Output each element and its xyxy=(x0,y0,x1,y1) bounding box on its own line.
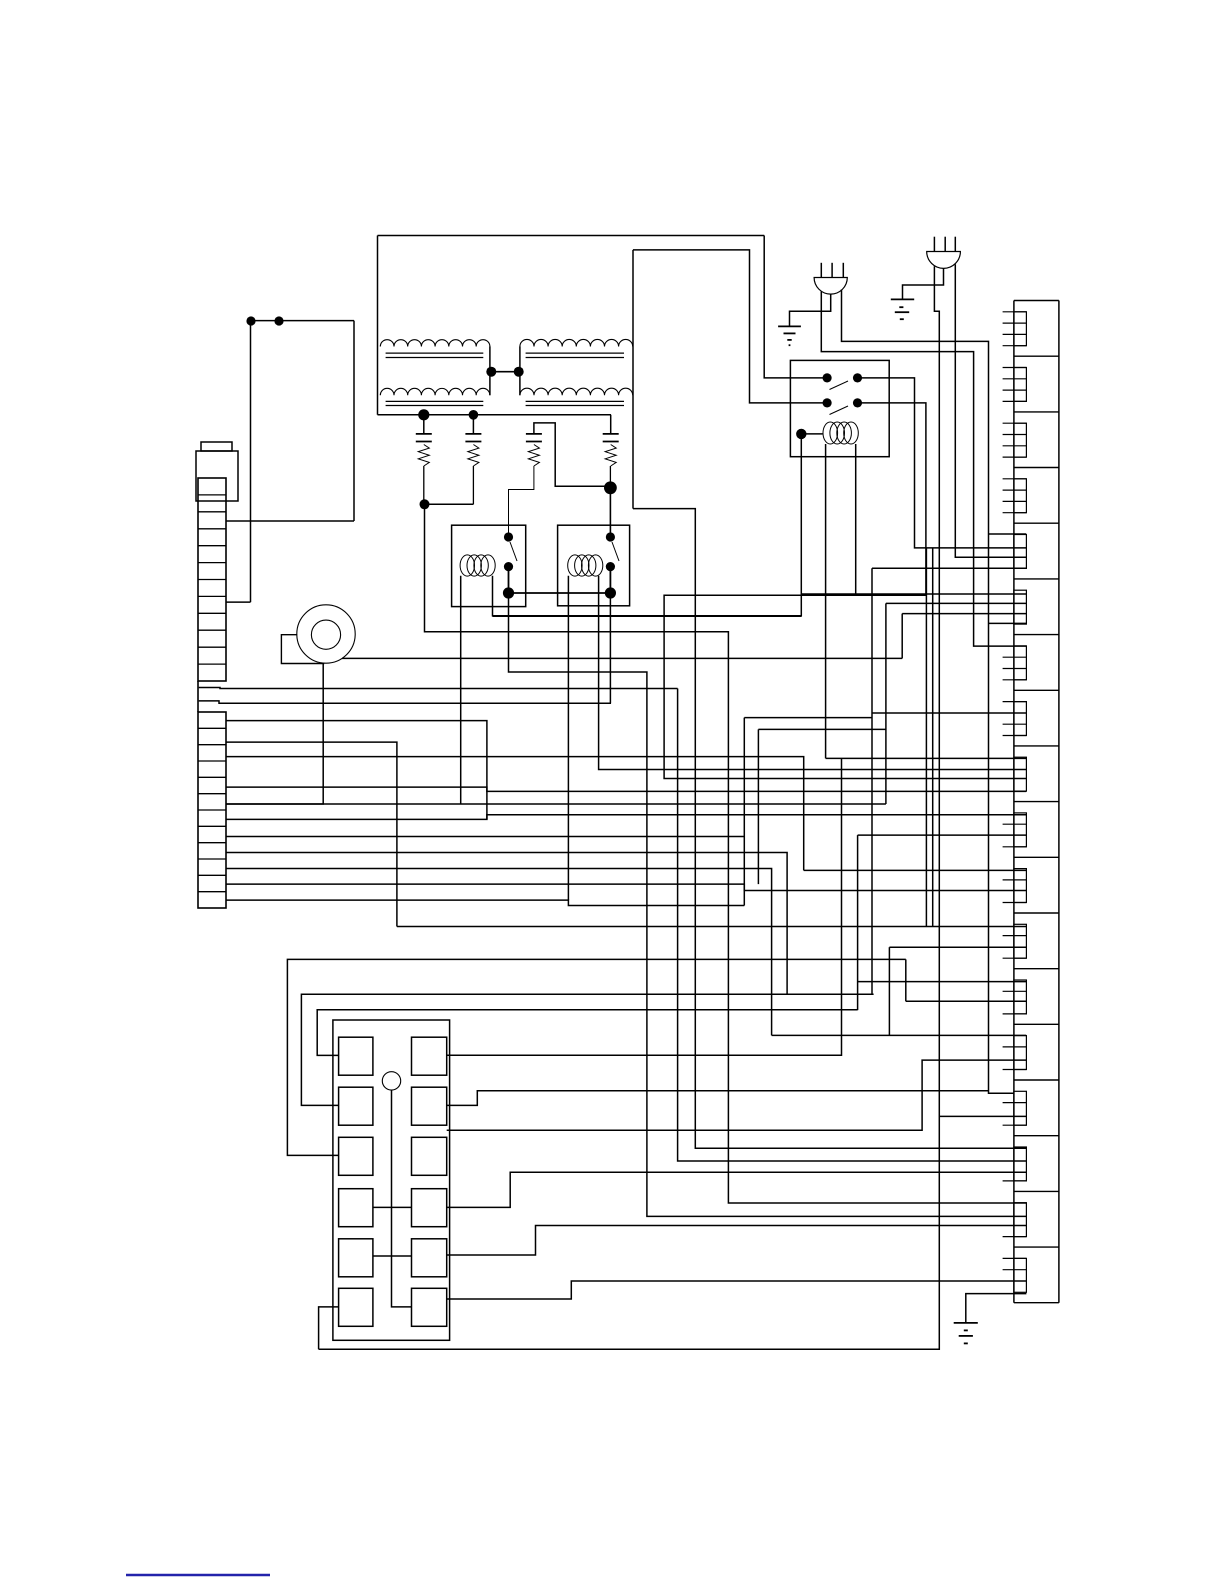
wire P1 center to ground G1 xyxy=(790,294,831,327)
wire s1 stub xyxy=(423,415,425,434)
switch S1 lever xyxy=(830,381,849,390)
connector CN2 box11 pins xyxy=(1014,869,1027,903)
wire T2 left end vertical xyxy=(519,347,521,396)
wire cell12 xyxy=(226,900,744,905)
wire cell1 xyxy=(226,721,487,820)
wire K1 coil left lead xyxy=(460,576,462,804)
node K1 top contact xyxy=(504,532,513,541)
wire P2 lead A branch to conn p15-3 xyxy=(939,1115,1026,1117)
connector CN2 box3 pins xyxy=(1014,423,1027,457)
relay K1 coil xyxy=(460,555,474,576)
capacitor C2 xyxy=(465,433,481,435)
connector CN2 box14 pins xyxy=(1014,1036,1027,1070)
transformer T1 core xyxy=(386,352,484,354)
wire conn p5-4 feed xyxy=(872,567,1026,569)
fan M1 housing xyxy=(281,635,324,664)
wire T1 right end vertical xyxy=(489,347,491,396)
wire K2 common to J1 lower wire xyxy=(609,593,611,703)
transformer T2 secondary core xyxy=(526,400,624,402)
connector CN2 box18 pins xyxy=(1014,1258,1027,1292)
connector CN2 box4 pins xyxy=(1014,479,1027,513)
connector CN2 left rail xyxy=(1013,301,1015,1303)
wire cell6 xyxy=(226,803,886,805)
transformer T1 secondary core xyxy=(386,400,484,402)
wire S1 net drop A xyxy=(925,548,927,927)
footer rule xyxy=(126,1574,270,1577)
plug P2 prongs xyxy=(933,237,935,252)
wire R3 exit to conn p14-3 xyxy=(447,1060,1026,1130)
lamp DS1 circle xyxy=(382,1072,400,1090)
relay K2 box xyxy=(558,525,630,606)
wire CN1 row5 link xyxy=(373,1255,412,1257)
wire 857.6 drop xyxy=(857,835,859,1010)
wire box B1 bottom edge to strip cell3 xyxy=(227,520,355,522)
wire T-box left edge xyxy=(377,236,379,415)
connector CN1 right pads xyxy=(412,1037,447,1075)
node S2 right contact xyxy=(853,398,862,407)
capacitor C1 xyxy=(416,433,432,435)
wire K3 coil mid lead drop xyxy=(825,444,827,758)
relay K3 box xyxy=(790,360,889,456)
node T-bridge left xyxy=(486,367,496,377)
wire R2 feed xyxy=(301,994,873,1105)
wire K1 coil right lead xyxy=(493,576,802,616)
connector CN2 box7 pins xyxy=(1014,646,1027,680)
wire 872 drop xyxy=(871,568,873,994)
resistor R4 xyxy=(605,445,616,467)
wire conn p11-1 feed xyxy=(804,869,1026,871)
ground G1 xyxy=(778,325,801,327)
wire K3 coil junction drop xyxy=(800,434,802,616)
transformer T1 primary coil xyxy=(380,340,490,347)
resistor R1 xyxy=(418,445,429,467)
wire P1 lead B xyxy=(842,290,1014,1094)
wire box B1 right edge xyxy=(353,321,355,521)
node S2 left contact xyxy=(823,398,832,407)
node s1-s2 junction xyxy=(420,499,430,509)
connector J1 body xyxy=(196,451,238,501)
wire DS1 drop xyxy=(392,1090,412,1307)
wire R3 feed xyxy=(287,959,905,1155)
wire s2 stub xyxy=(472,415,474,434)
wire link 889 xyxy=(888,947,890,1035)
wire P1 lead A xyxy=(821,292,1026,647)
node T-bridge right xyxy=(514,367,524,377)
wire P2 lead A (left) xyxy=(319,266,940,1349)
wire box B1 top edge xyxy=(251,320,354,322)
plug P2 body xyxy=(927,252,961,269)
connector J2 lower terminal strip xyxy=(198,712,226,908)
wire 688 drop to conn p16-2 xyxy=(678,689,1027,1162)
wire conn p13-3 feed xyxy=(906,1000,1026,1002)
connector CN2 box10 pins xyxy=(1014,813,1027,847)
connector J1 upper terminal strip xyxy=(198,478,226,681)
wire s2 tail xyxy=(472,466,474,504)
wire cell2 xyxy=(226,742,397,926)
node A1 xyxy=(246,316,255,325)
wire K2 coil left lead xyxy=(567,576,569,900)
wire center tap vertical xyxy=(632,250,634,509)
connector CN2 box12 pins xyxy=(1014,924,1027,958)
wire s3 top link xyxy=(534,423,611,486)
wire K2 mid-bottom xyxy=(609,567,611,593)
node K2 top contact xyxy=(606,532,615,541)
wire R1 feed xyxy=(317,1010,857,1056)
wire T-box bottom bus xyxy=(378,414,612,416)
switch K2 lever xyxy=(612,542,619,561)
wire cell8 xyxy=(226,836,744,838)
connector CN2 box5 pins xyxy=(1014,535,1027,569)
capacitor C3 xyxy=(526,433,542,435)
connector CN2 box6 pins xyxy=(1014,590,1027,624)
connector CN2 box9 pins xyxy=(1014,757,1027,791)
fan M1 outer circle xyxy=(297,605,355,663)
wire K3 net to K1 coil xyxy=(493,615,802,617)
wire drop 758 xyxy=(757,729,759,884)
wire P1 leadB branch p5-1 xyxy=(989,533,1027,535)
wire s1s2 net xyxy=(425,504,1027,1203)
transformer T2 core xyxy=(526,352,624,354)
wire K3 coil right lead xyxy=(855,444,857,594)
wire conn p6-3 feed (fan) xyxy=(902,613,1026,615)
wire CN1 R6 left stub xyxy=(319,1307,339,1349)
wire conn p13-1 feed xyxy=(858,981,1027,983)
connector CN2 box17 pins xyxy=(1014,1203,1027,1237)
connector CN2 box15 pins xyxy=(1014,1091,1027,1125)
wire s1-s2 link xyxy=(425,503,474,505)
wire box B1 left edge down to strip cell8 xyxy=(250,321,252,602)
node K2 middle contact xyxy=(606,562,615,571)
node S1 left contact xyxy=(823,373,832,382)
wire S1 output xyxy=(858,378,1027,548)
wire cell6 drop xyxy=(885,603,887,804)
connector CN2 box8 pins xyxy=(1014,702,1027,736)
switch S2 lever xyxy=(830,406,849,415)
wire K1 common net to conn p17-2 xyxy=(509,593,1027,1216)
wire J1 gap wire 2 xyxy=(199,701,611,703)
resistor R3 xyxy=(528,445,539,467)
wire P2 center to ground G2 xyxy=(903,268,944,299)
connector CN2 box13 pins xyxy=(1014,980,1027,1014)
transformer T2 primary coil xyxy=(520,339,633,346)
wire s4 tail xyxy=(609,466,611,488)
wire conn p12-3 feed xyxy=(889,946,1026,948)
wire T-box right edge to switch S1 xyxy=(764,236,827,378)
node s4 junction xyxy=(604,481,617,494)
ground G2 xyxy=(891,298,914,300)
node A2 xyxy=(274,316,283,325)
wire R6 exit to conn p18-3 xyxy=(447,1281,1026,1299)
plug P1 prongs xyxy=(820,263,822,278)
wire R2 exit xyxy=(447,1091,989,1106)
wire cell5 to conn p9-4 xyxy=(226,787,1026,791)
capacitor C4 xyxy=(603,433,619,435)
connector CN1 left pads xyxy=(339,1037,373,1075)
relay K3 coil xyxy=(823,422,838,444)
wire s3 tail to relay K1 xyxy=(509,466,534,537)
wire K1 mid-bottom xyxy=(508,567,510,593)
connector CN2 box dividers xyxy=(1014,300,1059,302)
wire J1 gap wire 1 xyxy=(199,688,678,689)
wire s4 junction to relay K2 xyxy=(609,488,611,537)
node bus s1 xyxy=(418,409,429,420)
wire R5 exit to conn p17-3 xyxy=(447,1226,1026,1256)
wire fan output right xyxy=(342,657,902,659)
wire conn p8-2 feed xyxy=(872,712,1026,714)
connector J1 cap xyxy=(201,442,232,451)
wire R1 exit xyxy=(447,758,842,1055)
relay K2 coil xyxy=(568,555,582,576)
resistor R2 xyxy=(468,445,479,467)
wire link 717 xyxy=(744,717,872,719)
wire S1 net drop B xyxy=(932,548,934,927)
wire p13-3 riser xyxy=(905,959,907,1001)
wire R4 exit to conn p16-3 xyxy=(447,1172,1026,1207)
relay K1 box xyxy=(452,525,526,606)
wire P2 lead B (right) xyxy=(955,264,1026,557)
node K3 coil junction xyxy=(796,429,806,439)
switch K1 lever xyxy=(510,542,517,561)
wire K3 coil left lead xyxy=(801,433,822,435)
wire K1-K2 common link xyxy=(509,592,611,594)
wire cell3 xyxy=(226,757,804,871)
wire cell7 to conn p10-1 xyxy=(226,815,1026,820)
fan M1 inner circle xyxy=(311,620,340,649)
wire cell12 riser xyxy=(743,718,745,906)
wire s1 tail xyxy=(423,466,425,504)
ground G3 xyxy=(954,1322,978,1324)
transformer T1 secondary coil xyxy=(380,388,490,395)
node K2 common xyxy=(605,587,616,598)
wire inner feed to switch S2 xyxy=(633,250,827,403)
wire strip cell8 stub xyxy=(227,601,251,603)
wire CN1 row4 link xyxy=(373,1206,412,1208)
connector CN2 right edge xyxy=(1058,301,1060,1303)
wire K2 coil right lead xyxy=(599,576,1027,770)
wire fan riser xyxy=(901,614,903,659)
wire G3 stem xyxy=(966,1294,1027,1323)
wire cell10 xyxy=(226,869,772,1036)
wire conn p14-1 feed xyxy=(772,1034,1027,1036)
node bus s2 xyxy=(469,410,479,420)
plug P1 body xyxy=(814,278,847,295)
transformer T2 secondary coil xyxy=(520,388,633,395)
connector CN1 outline xyxy=(333,1020,450,1340)
wire J1 rail gap xyxy=(197,681,199,712)
node K1 common xyxy=(503,587,514,598)
wire cell11 to conn p11-3 xyxy=(226,884,1026,890)
connector CN2 box2 pins xyxy=(1014,368,1027,402)
wire P1 leadB branch p6-4 xyxy=(989,622,1027,624)
wire cell2 to conn p12-1 xyxy=(397,926,1026,928)
wire conn p9-1 feed xyxy=(826,757,1027,759)
node K1 middle contact xyxy=(504,562,513,571)
wire S2 output xyxy=(664,403,1026,779)
wire T1-T2 bridge xyxy=(490,371,520,373)
node S1 right contact xyxy=(853,373,862,382)
wire conn p10-3 feed xyxy=(858,834,1027,836)
wire center tap to conn p16-1 xyxy=(633,509,1026,1149)
wire conn p6-1 feed xyxy=(802,593,1027,595)
wire fan drop xyxy=(226,664,323,805)
connector CN2 box1 pins xyxy=(1014,312,1027,346)
wire conn p6-2 feed xyxy=(886,602,1026,604)
wire cell9 xyxy=(226,853,787,995)
wire s4 stub xyxy=(610,415,612,434)
wire link 729 xyxy=(758,728,886,730)
wire T-box top edge xyxy=(378,235,765,237)
connector CN2 box16 pins xyxy=(1014,1147,1027,1181)
